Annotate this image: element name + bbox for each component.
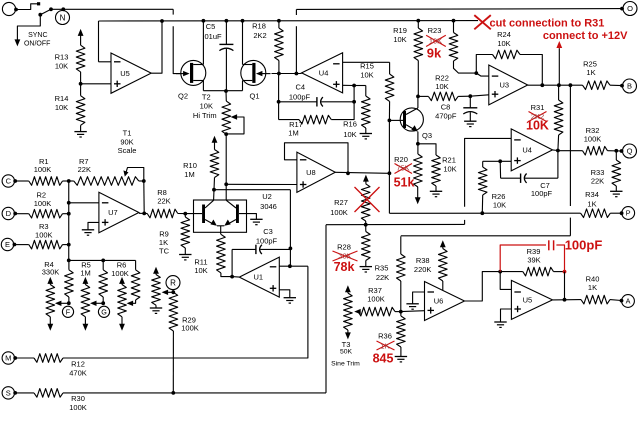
resistor R40 — [581, 295, 610, 304]
IC U2 CA3046 pair — [194, 200, 247, 232]
wire U1 + ground — [279, 290, 290, 298]
svg-text:10K: 10K — [55, 61, 68, 70]
resistor R32 — [558, 150, 583, 152]
svg-text:M: M — [5, 354, 11, 363]
svg-text:100K: 100K — [367, 295, 385, 304]
wire Q3 base node — [388, 120, 390, 213]
svg-text:10K: 10K — [497, 39, 510, 48]
op-amp U5 (sine out) — [511, 280, 552, 319]
resistor R34 — [581, 209, 611, 218]
wire U1 - line — [279, 265, 308, 267]
node R19/R22/collector — [416, 95, 420, 99]
connector R — [166, 276, 180, 290]
wire comparator base line — [389, 212, 580, 214]
resistor R30 — [15, 392, 35, 394]
svg-text:22K: 22K — [591, 177, 604, 186]
svg-text:22K: 22K — [157, 196, 170, 205]
op-amp U4 (sine buffer) — [511, 129, 552, 171]
svg-text:100K: 100K — [181, 324, 199, 333]
resistor R33 — [614, 149, 618, 153]
svg-text:470K: 470K — [69, 369, 87, 378]
resistor R15 — [389, 62, 391, 74]
connector A — [622, 295, 635, 308]
connector G — [98, 306, 109, 317]
resistor R13 — [76, 45, 85, 72]
svg-text:R35: R35 — [375, 264, 389, 273]
wire switch to -12V — [17, 15, 40, 39]
svg-text:100K: 100K — [69, 403, 87, 412]
connector P — [622, 207, 635, 220]
svg-text:R30: R30 — [71, 394, 85, 403]
wire main bus — [99, 20, 479, 22]
wire U5 feedback to bus — [99, 61, 112, 63]
resistor R28 (crossed out) — [365, 225, 367, 232]
svg-text:R27: R27 — [334, 198, 348, 207]
wire U5 output — [151, 21, 162, 73]
svg-text:R11: R11 — [194, 258, 207, 267]
op-amp U7 — [99, 192, 139, 232]
svg-text:1K: 1K — [587, 199, 596, 208]
svg-text:22K: 22K — [78, 165, 91, 174]
svg-text:330K: 330K — [42, 267, 60, 276]
capacitor C8 — [469, 96, 471, 108]
wire U8 feedback — [285, 143, 349, 174]
svg-text:Q: Q — [627, 147, 633, 156]
wire U4 + / R26 — [483, 160, 512, 162]
red capacitor 100pF mod wire — [500, 245, 546, 272]
svg-text:ON/OFF: ON/OFF — [24, 40, 50, 47]
svg-text:U6: U6 — [434, 297, 444, 306]
connector O — [620, 7, 624, 11]
svg-text:U4: U4 — [319, 68, 329, 77]
resistor R5 — [102, 260, 104, 269]
transistor Q2 JFET — [181, 60, 206, 85]
svg-text:R24: R24 — [497, 30, 511, 39]
svg-text:100K: 100K — [34, 165, 52, 174]
wire U5 output — [553, 299, 582, 301]
node C8 — [468, 94, 472, 98]
node R26 bottom — [480, 211, 484, 215]
svg-text:10K: 10K — [429, 36, 442, 45]
svg-text:220K: 220K — [414, 265, 432, 274]
capacitor C7 — [499, 161, 501, 178]
connector B — [623, 79, 637, 93]
resistor R39 — [500, 271, 523, 273]
svg-text:R15: R15 — [360, 62, 374, 71]
svg-text:78k: 78k — [334, 260, 355, 274]
resistor R9 — [184, 214, 186, 217]
svg-text:N: N — [60, 13, 66, 22]
ground R16 — [360, 133, 372, 135]
op-amp U1 — [239, 257, 279, 297]
connector S — [2, 387, 14, 399]
svg-text:100K: 100K — [111, 269, 129, 278]
svg-text:1M: 1M — [184, 170, 194, 179]
svg-text:10K: 10K — [443, 164, 456, 173]
potentiometer G pot — [83, 277, 89, 284]
red X cut mark — [474, 15, 491, 29]
wiper G — [90, 301, 97, 306]
svg-text:TC: TC — [159, 247, 170, 256]
connector F — [62, 306, 73, 317]
resistor R17 — [299, 115, 331, 124]
resistor R3 — [14, 244, 29, 246]
connector J1 (sync input jack) — [2, 2, 15, 15]
svg-text:50K: 50K — [340, 349, 353, 356]
svg-text:22K: 22K — [376, 273, 389, 282]
trimmer T1 Scale — [123, 170, 128, 176]
resistor R2 — [15, 213, 29, 215]
svg-text:10K: 10K — [435, 82, 448, 91]
svg-text:100K: 100K — [35, 231, 53, 240]
resistor R31 (crossed out 2K2) — [558, 85, 560, 100]
svg-text:1K: 1K — [380, 342, 389, 351]
svg-text:C3: C3 — [263, 227, 273, 236]
node R28 — [364, 223, 368, 227]
resistor R7 — [74, 177, 139, 186]
wiper F — [55, 301, 62, 306]
svg-text:100K: 100K — [330, 208, 348, 217]
svg-text:Q3: Q3 — [422, 131, 432, 140]
svg-text:Scale: Scale — [118, 146, 137, 155]
node U3 minus — [474, 71, 478, 75]
svg-text:1M: 1M — [80, 269, 90, 278]
wire from U3 output down (hops P line) — [569, 85, 571, 206]
svg-text:R10: R10 — [183, 161, 197, 170]
-12V arrow R20 — [415, 197, 421, 204]
ground R14 — [80, 125, 82, 131]
node R39 left — [498, 270, 502, 274]
op-amp U8 — [297, 152, 335, 192]
resistor R23 — [453, 21, 455, 33]
connector E — [1, 238, 13, 250]
wire U3 - input — [476, 73, 489, 76]
node Q3 emitter — [416, 142, 420, 146]
wire U2 base right / ground — [239, 214, 256, 220]
svg-text:100pF: 100pF — [565, 237, 603, 252]
wire R10 node to sine shaper — [214, 189, 290, 191]
svg-text:R28: R28 — [337, 243, 351, 252]
resistor R29 — [169, 292, 178, 331]
svg-text:D: D — [6, 209, 12, 218]
switch SYNC ON/OFF — [38, 13, 42, 17]
svg-text:R38: R38 — [416, 256, 430, 265]
svg-text:10K: 10K — [343, 130, 356, 139]
node U8+ tap — [224, 182, 228, 186]
svg-text:P: P — [626, 209, 631, 218]
wire U7 output/feedback — [139, 212, 147, 214]
node summing — [67, 179, 71, 183]
wire U3 output — [528, 84, 583, 86]
resistor R1 — [15, 180, 29, 182]
wire U3 + input — [470, 95, 489, 96]
+12V arrow R10 — [212, 136, 218, 143]
svg-text:O: O — [627, 4, 633, 13]
wire Q1/Q2 source line — [203, 90, 242, 92]
resistor R4 — [68, 260, 70, 269]
svg-text:U3: U3 — [500, 81, 510, 90]
svg-text:3046: 3046 — [260, 202, 277, 211]
wire sync line stub over bus — [172, 9, 174, 14]
wire U4 + input — [343, 84, 355, 86]
svg-text:C: C — [6, 177, 12, 186]
+12V red arrow — [556, 41, 562, 48]
wire to U5 + — [81, 83, 111, 85]
+12V arrow R13 — [78, 29, 84, 36]
svg-text:A: A — [626, 297, 631, 306]
resistor R14 — [80, 84, 82, 96]
connector M — [2, 352, 14, 364]
wire summing vertical — [68, 181, 70, 260]
svg-text:10K: 10K — [526, 119, 549, 133]
wire T2 to U2 — [225, 134, 227, 200]
wire U6 - ground — [413, 292, 425, 304]
svg-text:10K: 10K — [393, 35, 406, 44]
node R13/R14 — [79, 82, 83, 86]
trimmer R27 (crossed out) — [363, 175, 369, 182]
node U6 + — [399, 310, 403, 314]
resistor R6 — [135, 260, 137, 269]
resistor R11 — [217, 234, 226, 273]
svg-text:75K: 75K — [396, 164, 409, 173]
svg-text:R13: R13 — [55, 52, 69, 61]
resistor R24 — [493, 50, 521, 59]
wire U7 + ground — [88, 222, 99, 229]
svg-text:R18: R18 — [252, 21, 266, 30]
svg-text:R25: R25 — [583, 59, 597, 68]
capacitor C4 — [277, 100, 281, 104]
connector D — [2, 207, 14, 219]
svg-text:T2: T2 — [202, 93, 211, 102]
svg-text:10K: 10K — [194, 266, 207, 275]
svg-text:R: R — [170, 278, 176, 287]
transistor Q3 — [400, 108, 423, 131]
svg-text:100pF: 100pF — [289, 92, 311, 101]
wire U7 - input — [69, 202, 99, 204]
svg-text:B: B — [627, 82, 632, 91]
svg-text:R34: R34 — [585, 190, 599, 199]
svg-text:U7: U7 — [108, 208, 118, 217]
wiper R6 — [132, 300, 136, 303]
wire switch upper throw — [16, 4, 38, 10]
wiper R — [162, 290, 169, 295]
svg-text:R14: R14 — [55, 94, 69, 103]
wire sync riser — [325, 225, 327, 393]
svg-text:cut connection to R31: cut connection to R31 — [490, 17, 605, 29]
svg-text:R40: R40 — [586, 275, 600, 284]
svg-text:51k: 51k — [394, 176, 415, 190]
svg-text:Q1: Q1 — [249, 92, 259, 101]
node U1 output — [230, 275, 234, 279]
wire pot feed line — [69, 259, 136, 261]
trimmer T2 Hi Trim — [222, 101, 231, 134]
svg-text:39K: 39K — [527, 255, 540, 264]
svg-text:Hi Trim: Hi Trim — [193, 111, 217, 120]
wire feedback line y236 — [401, 235, 571, 237]
node R10 bottom — [212, 188, 216, 192]
resistor R10 — [210, 150, 219, 178]
wire U8 output — [335, 172, 389, 173]
svg-text:U5: U5 — [523, 296, 533, 305]
wire U2 base left — [185, 213, 202, 215]
potentiometer F pot — [47, 277, 53, 284]
resistor R21 — [418, 144, 436, 155]
wire sync bus upper — [51, 8, 173, 10]
svg-text:90K: 90K — [120, 137, 133, 146]
node C4 right — [352, 100, 356, 104]
op-amp U6 — [425, 282, 465, 321]
svg-text:100pF: 100pF — [256, 237, 278, 246]
svg-text:1K: 1K — [588, 283, 597, 292]
wire U6 output — [465, 272, 501, 301]
svg-text:R16: R16 — [343, 120, 357, 129]
wire U4 - input line (to sync) — [465, 138, 512, 206]
svg-text:F: F — [66, 307, 71, 316]
svg-text:U5: U5 — [120, 69, 130, 78]
svg-text:E: E — [5, 240, 10, 249]
resistor R18 — [275, 28, 284, 61]
connector C — [2, 175, 14, 187]
svg-text:SYNC: SYNC — [28, 32, 47, 39]
svg-text:R3: R3 — [39, 222, 49, 231]
resistor R22 — [428, 92, 458, 101]
transistor Q1 JFET — [241, 60, 266, 85]
resistor R20 — [417, 144, 419, 154]
svg-text:U8: U8 — [306, 168, 316, 177]
svg-text:9k: 9k — [427, 45, 442, 60]
svg-text:R19: R19 — [393, 26, 407, 35]
resistor R38 — [439, 249, 448, 282]
resistor R12 — [15, 357, 35, 359]
svg-text:10K: 10K — [200, 101, 213, 110]
wire U4 output — [553, 149, 558, 152]
wire U5 + ground — [501, 309, 512, 322]
+12V arrow R38 — [440, 240, 446, 247]
op-amp U5 — [111, 53, 151, 93]
potentiometer third pot — [119, 277, 125, 284]
resistor R16 — [354, 85, 366, 87]
potentiometer R pot — [153, 267, 159, 274]
node R9 — [183, 212, 187, 216]
svg-text:C5: C5 — [206, 22, 216, 31]
svg-text:Sine Trim: Sine Trim — [331, 361, 360, 368]
svg-text:1M: 1M — [288, 128, 298, 137]
op-amp U4 (integrator comparator) — [302, 53, 343, 93]
svg-text:Q2: Q2 — [178, 92, 188, 101]
wire stub over bus at x296 — [295, 9, 297, 15]
svg-text:10K: 10K — [360, 71, 373, 80]
resistor R8 — [147, 209, 178, 218]
resistor R35 — [400, 236, 402, 254]
resistor R25 — [583, 81, 611, 90]
svg-text:S: S — [6, 389, 11, 398]
svg-text:2K2: 2K2 — [253, 31, 266, 40]
wire to R24 — [476, 55, 492, 74]
svg-text:10K: 10K — [493, 201, 506, 210]
svg-text:R21: R21 — [442, 156, 456, 165]
capacitor C3 — [231, 249, 233, 276]
wire U4 - input to R15 — [343, 61, 390, 63]
svg-text:10K: 10K — [55, 103, 68, 112]
wire M line to U1 - — [63, 266, 308, 358]
wire to U5 - — [500, 272, 511, 290]
op-amp U3 — [489, 65, 528, 105]
resistor R36 (crossed out) — [400, 312, 402, 316]
resistor R26 — [482, 161, 484, 167]
svg-text:100K: 100K — [34, 199, 52, 208]
trimmer T3 Sine Trim — [354, 309, 361, 314]
svg-text:connect to +12V: connect to +12V — [543, 30, 628, 42]
svg-text:100K: 100K — [584, 135, 602, 144]
svg-text:R23: R23 — [428, 26, 442, 35]
connector Q — [623, 144, 637, 158]
svg-text:.01uF: .01uF — [202, 32, 222, 41]
resistor R19 — [417, 21, 419, 28]
resistor R37 — [358, 307, 395, 316]
svg-text:C4: C4 — [296, 83, 306, 92]
wire top line to O — [296, 8, 622, 11]
svg-text:845: 845 — [373, 352, 394, 366]
svg-text:470pF: 470pF — [435, 111, 457, 120]
svg-text:100pF: 100pF — [531, 189, 553, 198]
node N — [56, 11, 70, 25]
svg-text:U4: U4 — [522, 146, 532, 155]
wire C3 right node — [289, 247, 293, 251]
wire R18 node down — [278, 74, 280, 120]
svg-text:R36: R36 — [378, 332, 392, 341]
svg-text:U2: U2 — [262, 192, 272, 201]
wire to U8 + — [226, 183, 297, 185]
svg-text:U1: U1 — [254, 273, 264, 282]
wire Q1 gate to U4 output — [272, 73, 302, 75]
svg-text:T3: T3 — [342, 340, 351, 349]
capacitor C5 — [225, 21, 227, 45]
svg-text:R31: R31 — [531, 103, 545, 112]
wire S line to sync riser — [63, 392, 326, 394]
svg-text:R12: R12 — [71, 360, 85, 369]
wire sync line to Q2 gate — [173, 26, 181, 73]
svg-text:G: G — [101, 307, 107, 316]
svg-text:1K: 1K — [586, 68, 595, 77]
